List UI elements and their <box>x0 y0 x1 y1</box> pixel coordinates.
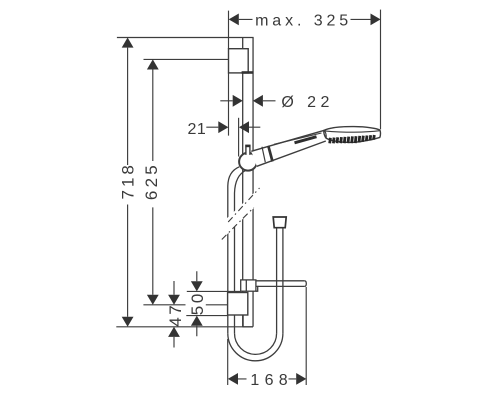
handle joint ring thin <box>262 147 265 163</box>
718 bottom reference line <box>116 326 243 328</box>
arrowheads <box>122 14 381 385</box>
bar clamp on rail <box>241 280 256 291</box>
rail bottom end cap <box>243 315 253 327</box>
break band blank <box>221 187 260 240</box>
hose U-bend outer <box>228 333 283 361</box>
max325 right extension line <box>380 10 382 130</box>
max325 dimension line <box>239 18 371 20</box>
bracket bottom (wall holder) <box>228 293 248 316</box>
625 top reference line <box>144 58 229 60</box>
50 bottom arrow <box>191 316 203 326</box>
bar clamp inner line left <box>245 280 247 291</box>
hose U-bend inner <box>235 333 277 354</box>
718 top reference line <box>117 37 254 39</box>
svg-text:Ø 22: Ø 22 <box>281 94 334 111</box>
hose right inner line <box>276 228 278 334</box>
soap dish bar top edge <box>256 280 305 282</box>
max325 left arrow <box>229 14 239 26</box>
21 left-pointing arrow <box>239 121 249 133</box>
handle inner line <box>274 133 322 144</box>
50 arrow stems <box>196 271 198 336</box>
break line upper <box>228 188 259 222</box>
svg-text:47: 47 <box>166 303 185 327</box>
dia22 left-pointing arrow <box>253 95 263 107</box>
21 right-pointing arrow <box>218 121 228 133</box>
soap dish bar end cap <box>305 281 307 287</box>
svg-text:625: 625 <box>142 162 161 200</box>
slider knob <box>246 145 250 155</box>
21 extension line <box>238 118 240 157</box>
hose upper-left outer curve <box>228 167 240 333</box>
wall extension line (max325 left / 21 reference) <box>228 11 230 136</box>
bar clamp step <box>256 286 258 291</box>
svg-text:718: 718 <box>118 162 137 199</box>
bracket top clamp bold line <box>242 71 254 74</box>
handle body fill <box>251 130 325 166</box>
168 left arrow <box>228 373 238 385</box>
168 right arrow <box>296 373 306 385</box>
625 bottom arrow <box>147 295 159 305</box>
168 dimension line <box>238 378 296 380</box>
handle head shadow bold dash <box>295 137 317 143</box>
dia22 dimension line <box>220 100 275 102</box>
dia22 right-pointing arrow <box>233 95 243 107</box>
47 bottom arrow <box>168 327 180 337</box>
soap dish bar bottom edge <box>258 285 305 287</box>
50 top reference line <box>187 290 241 292</box>
50 bottom reference line <box>186 315 227 317</box>
625/47 shared reference line <box>143 304 227 306</box>
hose upper-left inner curve <box>235 170 247 333</box>
hose right outer line <box>282 228 284 334</box>
168 left extension line <box>227 339 229 385</box>
625 dimension vline <box>152 70 154 295</box>
168 right extension line <box>305 287 307 385</box>
slider knob cap <box>245 145 250 147</box>
shower head neck line <box>324 130 326 138</box>
wire rail left edge <box>242 38 244 327</box>
21 dimension line <box>206 126 260 128</box>
handle joint ring bold <box>268 146 272 162</box>
dimension lines & extension lines <box>116 10 380 385</box>
break line lower <box>222 208 254 240</box>
wire rail right edge <box>252 38 254 327</box>
handle top edge <box>251 130 324 151</box>
bracket top (wall holder) <box>229 49 249 73</box>
slider circle <box>239 153 257 171</box>
shower head outline <box>324 127 381 143</box>
shower head rim lower edge <box>325 131 380 133</box>
svg-text:168: 168 <box>250 372 293 389</box>
718 bottom arrow <box>122 317 134 327</box>
shower head nozzles <box>330 135 375 143</box>
625 top arrow <box>147 59 159 69</box>
50 top arrow <box>191 281 203 291</box>
svg-text:21: 21 <box>188 121 207 138</box>
47 arrow stems <box>173 281 175 348</box>
47 top arrow <box>168 295 180 305</box>
handle bottom edge <box>257 141 326 166</box>
hose nut connector <box>273 217 286 228</box>
718 top arrow <box>122 38 134 48</box>
svg-text:50: 50 <box>188 291 207 315</box>
max325 right arrow <box>371 14 381 26</box>
svg-text:max. 325: max. 325 <box>255 12 352 29</box>
718 dimension vline <box>127 48 129 317</box>
